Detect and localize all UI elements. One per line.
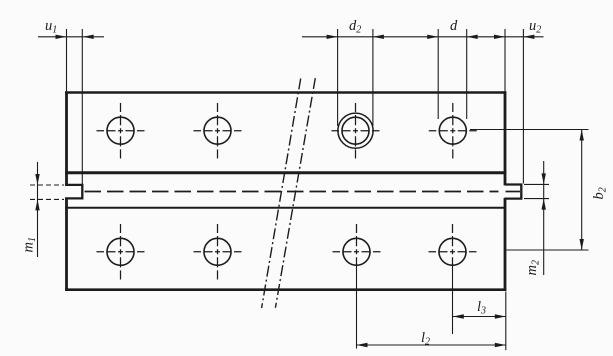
hole H1 crosshair horizontal [97, 130, 145, 132]
dimension u2 extension right [522, 29, 524, 184]
hole H3 top row inner circle [342, 117, 369, 144]
left edge lower segment [65, 198, 68, 292]
hole H8 crosshair vertical [452, 224, 454, 266]
hole H1 crosshair vertical [120, 103, 122, 159]
arrow u2 left [494, 35, 505, 39]
plate P1 top edge [65, 91, 506, 94]
hole H5 crosshair vertical [120, 224, 122, 280]
arrow d1 left [327, 35, 338, 39]
arrow m1 down [35, 174, 39, 185]
dimension m1 line [37, 162, 39, 257]
hole H4 crosshair vertical [452, 103, 454, 159]
hole H4 top row [439, 117, 466, 144]
hole H8 bottom row [439, 238, 466, 265]
dimension m2 extension bottom [524, 198, 549, 200]
dimension m1 dashed extension bottom [30, 198, 64, 200]
hole H2 top row [204, 117, 231, 144]
dimension l2 extension from hole column [356, 266, 358, 349]
dimension u1 line [38, 36, 104, 38]
right edge upper segment [504, 91, 507, 185]
hole H7 crosshair horizontal [333, 251, 381, 253]
plate P2 bottom edge [65, 288, 506, 291]
hole H3 crosshair vertical [355, 103, 357, 159]
dimension b2 line [581, 130, 583, 251]
hole H1 top row [107, 117, 134, 144]
dimension l2 line [357, 344, 506, 346]
dimension m2 extension top [524, 183, 549, 185]
dimension u1 extension line right [81, 29, 83, 184]
hole H4 crosshair horizontal [429, 130, 477, 132]
arrow u1 left [56, 35, 67, 39]
dimension b2 extension bottom [507, 249, 589, 251]
arrow l2 left [357, 343, 368, 347]
arrow u2 right [523, 35, 534, 39]
arrow d1 right [373, 35, 384, 39]
hole H6 bottom row [204, 238, 231, 265]
arrow m1 up [35, 199, 39, 210]
hole H3 outer circle [338, 113, 373, 148]
left edge upper segment [65, 91, 68, 186]
break line 1 [262, 79, 301, 309]
rail centerline (dashed) [85, 191, 499, 193]
dimension u2 extension left [504, 29, 506, 91]
dimension l3 line [453, 316, 506, 318]
hole H6 crosshair vertical [217, 224, 219, 280]
right edge extension for l2 l3 [505, 292, 507, 351]
hole H7 bottom row [343, 238, 370, 265]
rail right end tab [505, 185, 521, 199]
rail centerline final dash [506, 191, 521, 193]
arrow l3 right [495, 314, 506, 318]
dimension d extension right [466, 29, 468, 119]
arrow b2 down [580, 239, 584, 250]
hole H2 crosshair horizontal [194, 130, 242, 132]
hole H5 bottom row [107, 238, 134, 265]
top dimension line d1 d u2 [302, 36, 544, 38]
dimension u1 extension line left [66, 29, 68, 91]
plate P2 top edge [65, 207, 506, 209]
dimension b2 extension top [470, 129, 589, 131]
hole H8 crosshair horizontal [429, 251, 477, 253]
arrow d right [467, 35, 478, 39]
dimension d1 extension right [372, 29, 374, 126]
hole H6 crosshair horizontal [194, 251, 242, 253]
arrow u1 right [83, 35, 94, 39]
dimension l3 extension from hole column [452, 266, 454, 334]
dimension m2 line [543, 161, 545, 275]
arrow b2 up [580, 130, 584, 141]
arrow m2 down [542, 173, 546, 184]
arrow d left [427, 35, 438, 39]
svg-text:d: d [450, 18, 458, 34]
right edge lower segment [504, 198, 507, 291]
dimension d extension left [437, 29, 439, 119]
hole H3 crosshair horizontal [332, 130, 380, 132]
break line 2 [275, 78, 315, 308]
plate P1 bottom edge [65, 171, 506, 174]
hole H7 crosshair vertical [356, 224, 358, 266]
arrow l3 left [453, 314, 464, 318]
arrow m2 up [542, 199, 546, 210]
hole H5 crosshair horizontal [97, 251, 145, 253]
dimension m1 dashed extension top [30, 184, 64, 186]
hole H2 crosshair vertical [217, 103, 219, 159]
arrow l2 right [495, 343, 506, 347]
dimension d1 extension left [337, 29, 339, 126]
rail left end notch [65, 185, 82, 199]
